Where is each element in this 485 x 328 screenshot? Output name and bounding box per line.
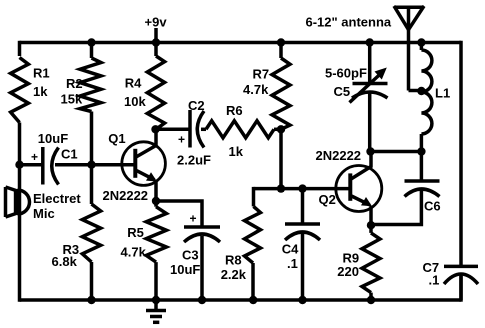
svg-text:R1: R1 xyxy=(33,66,50,81)
svg-text:4.7k: 4.7k xyxy=(243,82,269,97)
resistor R1 xyxy=(11,58,50,123)
svg-text:10uF: 10uF xyxy=(38,131,68,146)
node Q1 emitter / R5 junction xyxy=(152,197,160,205)
svg-text:10uF: 10uF xyxy=(170,262,200,277)
svg-text:+9v: +9v xyxy=(145,15,168,30)
ground symbol xyxy=(146,300,166,322)
node L1 / C6 junction xyxy=(417,147,425,155)
svg-text:L1: L1 xyxy=(435,86,450,101)
transistor Q1 xyxy=(103,129,166,203)
capacitor C2 xyxy=(156,98,212,168)
node R7 / base rail junction xyxy=(277,184,285,192)
svg-text:C2: C2 xyxy=(188,98,205,113)
inductor L1 xyxy=(421,43,450,152)
resistor R6 xyxy=(206,103,281,159)
svg-text:R5: R5 xyxy=(127,225,144,240)
node C3 / ground rail xyxy=(198,296,206,304)
svg-text:2N2222: 2N2222 xyxy=(103,188,149,203)
node Q2 emitter / R9 / C6 junction xyxy=(367,221,375,229)
svg-text:.1: .1 xyxy=(429,273,440,288)
svg-text:C6: C6 xyxy=(424,199,441,214)
capacitor C7 xyxy=(423,260,479,300)
svg-text:1k: 1k xyxy=(33,84,48,99)
antenna symbol xyxy=(394,6,424,91)
svg-text:R8: R8 xyxy=(225,253,242,268)
label 6-12" antenna xyxy=(306,15,392,30)
node R2 / R3 / C1 junction xyxy=(87,161,95,169)
svg-text:Q2: Q2 xyxy=(319,192,336,207)
resistor R3 xyxy=(52,165,101,300)
svg-text:R2: R2 xyxy=(66,76,83,91)
capacitor C4 xyxy=(282,189,320,300)
node R5 / ground rail xyxy=(152,296,160,304)
wire left branch (R1/mic column) xyxy=(18,41,22,302)
node C4 / base rail junction xyxy=(298,184,306,192)
svg-text:6-12" antenna: 6-12" antenna xyxy=(306,15,392,30)
svg-text:C5: C5 xyxy=(334,84,351,99)
node top rail / +9v / R4 junction xyxy=(152,38,160,46)
svg-text:5-60pF: 5-60pF xyxy=(325,66,367,81)
node Q2 collector / C5 junction xyxy=(366,147,374,155)
svg-text:R7: R7 xyxy=(253,67,270,82)
capacitor C5 variable xyxy=(325,43,388,152)
svg-text:Mic: Mic xyxy=(33,206,55,221)
node R9 / ground rail xyxy=(367,296,375,304)
wire base rail of Q2 xyxy=(254,187,351,191)
svg-text:220: 220 xyxy=(337,264,359,279)
svg-text:Q1: Q1 xyxy=(108,131,125,146)
node C4 / ground rail xyxy=(298,296,306,304)
electret microphone xyxy=(6,187,82,221)
svg-text:10k: 10k xyxy=(124,94,146,109)
svg-text:4.7k: 4.7k xyxy=(121,245,147,260)
capacitor C1 xyxy=(20,131,136,185)
capacitor C6 xyxy=(371,152,441,225)
svg-text:15k: 15k xyxy=(61,92,83,107)
wire right branch (C7 column) xyxy=(459,41,463,302)
wire bottom ground rail xyxy=(20,298,462,302)
node top rail / C5 junction xyxy=(366,38,374,46)
node top rail / L1 junction xyxy=(417,38,425,46)
svg-text:C4: C4 xyxy=(282,242,299,257)
node mic / C1 junction xyxy=(15,161,23,169)
svg-text:.1: .1 xyxy=(287,256,298,271)
svg-text:6.8k: 6.8k xyxy=(52,254,78,269)
svg-text:2.2k: 2.2k xyxy=(221,267,247,282)
node R8 / ground rail xyxy=(249,296,257,304)
capacitor C3 xyxy=(156,201,220,300)
svg-text:Electret: Electret xyxy=(33,191,81,206)
svg-text:+: + xyxy=(178,133,185,147)
svg-text:R4: R4 xyxy=(125,76,142,91)
transistor Q2 xyxy=(316,148,382,225)
svg-text:2N2222: 2N2222 xyxy=(316,148,362,163)
wire top rail +9v xyxy=(20,41,462,45)
resistor R5 xyxy=(121,201,167,300)
node Q1 collector / R4 / C2 junction xyxy=(151,125,159,133)
svg-text:+: + xyxy=(190,212,197,226)
svg-text:2.2uF: 2.2uF xyxy=(177,153,211,168)
node R3 / bottom rail xyxy=(87,296,95,304)
resistor R7 xyxy=(243,43,290,130)
node L1 tap / antenna junction xyxy=(417,87,425,95)
svg-text:R6: R6 xyxy=(226,103,243,118)
resistor R2 xyxy=(61,43,102,165)
node top rail / R2 junction xyxy=(87,38,95,46)
svg-text:1k: 1k xyxy=(229,144,244,159)
node R6 / R7 junction xyxy=(277,125,285,133)
resistor R4 xyxy=(124,43,165,130)
svg-text:+: + xyxy=(31,150,38,164)
svg-text:C1: C1 xyxy=(61,147,78,162)
resistor R8 xyxy=(221,187,261,300)
label +9v supply xyxy=(145,15,168,43)
wire Q2 collector to L1/C6 xyxy=(371,150,422,154)
node top rail / R7 junction xyxy=(277,38,285,46)
svg-text:C3: C3 xyxy=(182,248,199,263)
resistor R9 xyxy=(337,225,380,300)
wire R7 to base rail xyxy=(279,129,283,188)
